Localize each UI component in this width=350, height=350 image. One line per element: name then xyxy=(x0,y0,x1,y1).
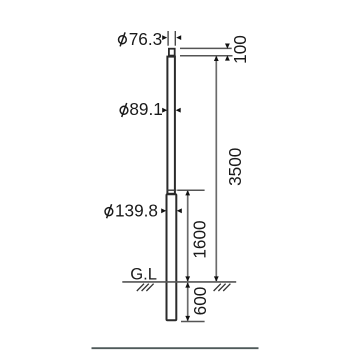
arrow 1600 top (up) xyxy=(185,190,190,195)
arrow 3500 bottom (down) xyxy=(214,276,219,281)
arrow phi76.3 right xyxy=(176,35,181,40)
hatch left group xyxy=(137,284,144,291)
arrow phi89.1 right xyxy=(176,108,181,113)
dimension line 1600 xyxy=(187,191,189,281)
svg-text:600: 600 xyxy=(190,287,210,316)
label phi139.8 xyxy=(105,201,158,221)
svg-text:139.8: 139.8 xyxy=(115,201,158,221)
arrow 600 top (up) xyxy=(185,282,190,287)
ground line G.L xyxy=(122,281,236,283)
svg-text:1600: 1600 xyxy=(190,220,210,258)
dimension line 3500 xyxy=(215,57,217,281)
extension line 100 bottom xyxy=(180,55,233,57)
arrow 3500 top (up) xyxy=(214,56,219,61)
dimension line 600 xyxy=(187,283,189,321)
extension line 600 bottom xyxy=(181,321,205,323)
svg-text:100: 100 xyxy=(230,35,250,64)
arrow phi76.3 left xyxy=(162,35,167,40)
arrow phi89.1 left xyxy=(162,108,167,113)
arrow 100 bottom (up) xyxy=(225,55,230,60)
pole upper section (89.1 tube) xyxy=(167,57,175,194)
extension line phi76.3 left xyxy=(167,31,169,46)
arrow 100 top (down) xyxy=(225,44,230,49)
extension line phi76.3 right xyxy=(174,31,176,46)
arrow 600 bottom (down) xyxy=(185,316,190,321)
arrow phi139.8 right xyxy=(177,208,182,213)
arrow phi139.8 left xyxy=(161,208,166,213)
arrow 1600 bottom (down) xyxy=(185,276,190,281)
svg-text:G.L: G.L xyxy=(130,265,157,284)
hatch right group xyxy=(214,284,221,291)
extension line 1600 (joint) xyxy=(177,189,204,191)
pole top cap (76.3 tube) xyxy=(169,49,175,56)
bottom separator rule xyxy=(92,347,259,349)
svg-text:76.3: 76.3 xyxy=(129,29,162,49)
joint line xyxy=(167,189,177,191)
svg-text:89.1: 89.1 xyxy=(129,99,162,119)
pole lower section (139.8 tube) xyxy=(167,194,177,320)
extension line 100 top xyxy=(180,47,232,49)
label phi76.3 xyxy=(119,29,163,49)
label phi89.1 xyxy=(120,99,163,119)
svg-text:3500: 3500 xyxy=(225,148,245,186)
